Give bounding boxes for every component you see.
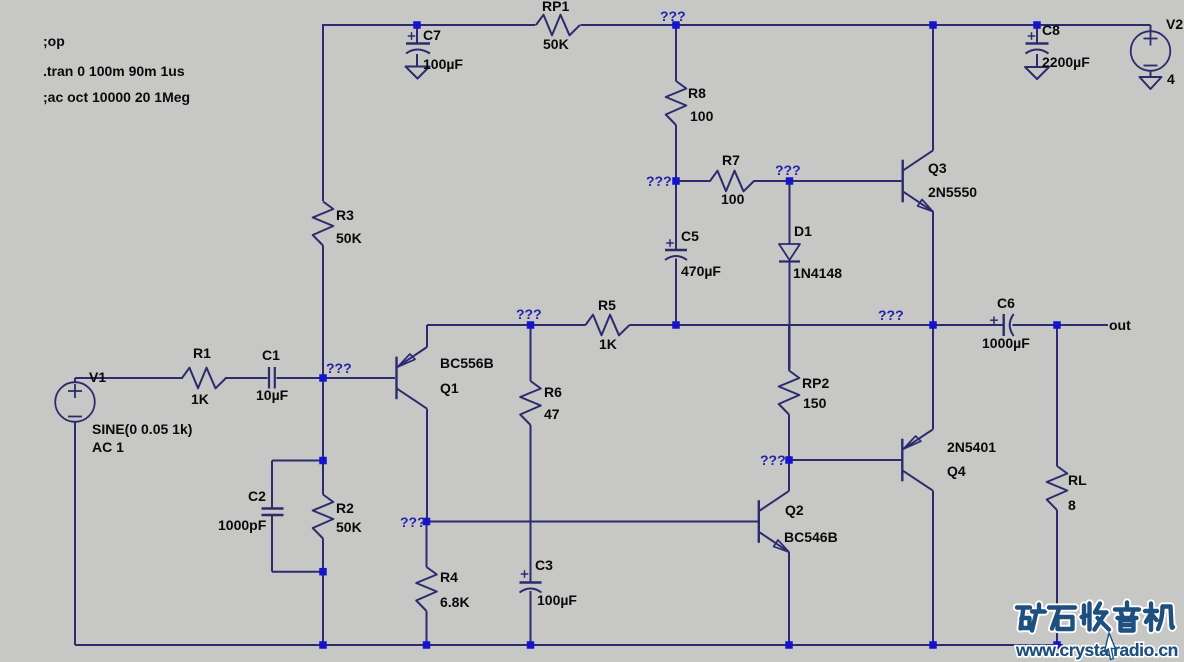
svg-text:1N4148: 1N4148: [793, 265, 842, 281]
svg-text:C7: C7: [423, 27, 441, 43]
svg-text:47: 47: [544, 406, 560, 422]
svg-text:C6: C6: [997, 295, 1015, 311]
svg-text:2N5550: 2N5550: [928, 184, 977, 200]
svg-text:???: ???: [660, 8, 686, 24]
svg-text:D1: D1: [794, 223, 812, 239]
svg-text:V2: V2: [1166, 16, 1183, 32]
svg-text:C3: C3: [535, 557, 553, 573]
svg-text:Q3: Q3: [928, 160, 947, 176]
svg-text:100µF: 100µF: [537, 592, 577, 608]
svg-text:1K: 1K: [191, 391, 209, 407]
svg-text:8: 8: [1068, 497, 1076, 513]
svg-text:???: ???: [878, 307, 904, 323]
svg-text:R4: R4: [440, 569, 458, 585]
svg-text:;op: ;op: [43, 33, 65, 49]
svg-text:1000µF: 1000µF: [982, 335, 1030, 351]
svg-text:out: out: [1109, 317, 1131, 333]
svg-text:;ac oct 10000 20 1Meg: ;ac oct 10000 20 1Meg: [43, 89, 190, 105]
svg-text:C1: C1: [262, 347, 280, 363]
svg-text:1K: 1K: [599, 336, 617, 352]
svg-text:R6: R6: [544, 384, 562, 400]
svg-text:RP1: RP1: [542, 0, 569, 14]
svg-text:???: ???: [775, 162, 801, 178]
svg-text:2200µF: 2200µF: [1042, 54, 1090, 70]
svg-text:.tran 0 100m 90m 1us: .tran 0 100m 90m 1us: [43, 63, 185, 79]
svg-text:2N5401: 2N5401: [947, 439, 996, 455]
svg-text:R3: R3: [336, 207, 354, 223]
svg-text:10µF: 10µF: [256, 387, 289, 403]
svg-text:C5: C5: [681, 228, 699, 244]
svg-text:470µF: 470µF: [681, 263, 721, 279]
svg-text:www.crystalradio.cn: www.crystalradio.cn: [1015, 640, 1178, 660]
svg-text:6.8K: 6.8K: [440, 594, 470, 610]
svg-text:Q1: Q1: [440, 380, 459, 396]
svg-text:100: 100: [690, 108, 714, 124]
svg-text:V1: V1: [89, 369, 106, 385]
svg-text:R5: R5: [598, 297, 616, 313]
svg-text:Q4: Q4: [947, 463, 966, 479]
svg-text:AC 1: AC 1: [92, 439, 124, 455]
svg-text:100: 100: [721, 191, 745, 207]
svg-text:???: ???: [326, 360, 352, 376]
svg-text:BC556B: BC556B: [440, 355, 494, 371]
svg-text:Q2: Q2: [785, 502, 804, 518]
svg-text:RL: RL: [1068, 472, 1087, 488]
svg-text:150: 150: [803, 395, 827, 411]
svg-text:SINE(0 0.05 1k): SINE(0 0.05 1k): [92, 421, 192, 437]
svg-text:RP2: RP2: [802, 375, 829, 391]
svg-text:50K: 50K: [543, 36, 569, 52]
svg-text:50K: 50K: [336, 230, 362, 246]
svg-text:50K: 50K: [336, 519, 362, 535]
svg-text:R8: R8: [688, 85, 706, 101]
svg-text:R1: R1: [193, 345, 211, 361]
svg-text:C8: C8: [1042, 22, 1060, 38]
svg-text:C2: C2: [248, 488, 266, 504]
svg-text:???: ???: [516, 306, 542, 322]
svg-text:???: ???: [646, 173, 672, 189]
svg-text:4: 4: [1167, 71, 1175, 87]
svg-text:R2: R2: [336, 500, 354, 516]
svg-text:???: ???: [760, 452, 786, 468]
svg-text:1000pF: 1000pF: [218, 517, 267, 533]
svg-text:BC546B: BC546B: [784, 529, 838, 545]
svg-text:R7: R7: [722, 152, 740, 168]
svg-text:100µF: 100µF: [423, 56, 463, 72]
svg-text:???: ???: [400, 514, 426, 530]
